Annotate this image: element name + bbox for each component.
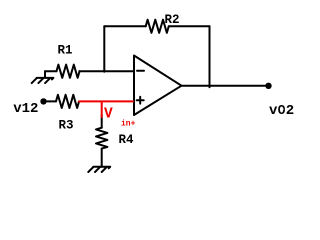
wire feedback right vertical: [209, 26, 211, 87]
wire R4 upper lead: [101, 115, 103, 128]
wire inverting input: [80, 70, 134, 72]
wire noninverting input (red): [79, 100, 133, 102]
resistor R1: [57, 65, 80, 78]
wire red stub to R4: [101, 101, 103, 117]
resistor R4: [96, 128, 107, 149]
node v02 dot: [265, 83, 271, 89]
svg-text:R4: R4: [119, 133, 135, 147]
resistor R3: [56, 95, 79, 108]
op-amp plus sign: [137, 97, 144, 104]
op-amp U1 triangle: [134, 56, 182, 116]
svg-text:R3: R3: [59, 119, 74, 133]
svg-text:R1: R1: [58, 44, 73, 58]
node v12 dot: [40, 98, 46, 104]
wire top horizontal left of R2: [104, 25, 145, 27]
ground G2 bottom: [88, 167, 110, 172]
svg-text:R2: R2: [165, 13, 180, 27]
mask for zero dot in v02: [280, 107, 284, 111]
op-amp minus sign: [137, 70, 144, 72]
svg-text:in+: in+: [121, 120, 136, 129]
wire top horizontal right of R2: [169, 25, 210, 27]
wire R4 lower lead: [101, 149, 103, 167]
wire feedback top-left vertical: [103, 26, 105, 72]
resistor R2: [146, 20, 169, 33]
wire output: [182, 85, 269, 87]
wire R1 left lead: [45, 70, 57, 72]
svg-text:V: V: [104, 107, 113, 123]
ground G1 top-left: [32, 71, 54, 83]
wire v12 lead: [44, 100, 57, 102]
svg-text:v12: v12: [13, 101, 38, 117]
